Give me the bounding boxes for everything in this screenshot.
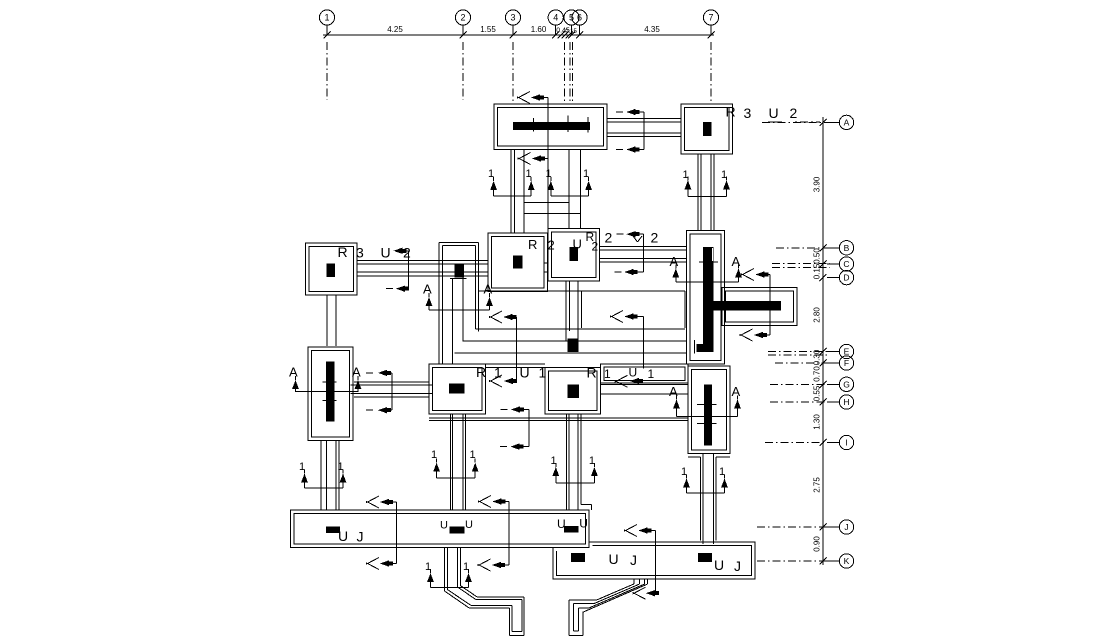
stair leg left <box>444 548 446 592</box>
stair left edge A <box>460 586 477 597</box>
row tick D <box>820 274 827 281</box>
section arrow RL-RC lower <box>500 446 507 448</box>
row tick I <box>820 439 827 446</box>
shear wall BR vertical <box>703 247 714 348</box>
beam F1-F2 <box>607 117 681 119</box>
svg-text:R: R <box>476 364 486 380</box>
row C dash-dot <box>772 263 830 265</box>
beam RC-RR lower <box>601 384 689 386</box>
row bubble A <box>839 115 853 129</box>
svg-text:U: U <box>381 245 391 261</box>
section arrow F1-F2 upper <box>616 111 623 113</box>
row A dash-dot <box>762 121 830 123</box>
grid tick 1 <box>324 32 331 39</box>
svg-text:U: U <box>629 366 638 380</box>
grid line 1 dash-dot <box>326 42 328 100</box>
svg-text:U: U <box>440 520 448 532</box>
section 2-2 bottom arrow <box>615 271 622 273</box>
strip footing J left <box>291 510 589 547</box>
svg-text:7: 7 <box>708 13 713 23</box>
grid bubble 5 <box>564 10 579 25</box>
stair right edge D <box>583 584 648 612</box>
svg-text:U: U <box>579 517 588 531</box>
column in R3 <box>326 263 335 277</box>
beam RC leg <box>565 414 567 511</box>
svg-text:C: C <box>843 259 849 269</box>
svg-text:2.75: 2.75 <box>813 477 822 493</box>
column in RL <box>449 383 464 393</box>
svg-text:B: B <box>844 243 850 253</box>
svg-text:U: U <box>573 237 582 252</box>
notch in BR wall <box>712 248 713 261</box>
svg-text:2: 2 <box>592 240 599 254</box>
row I dash-dot <box>765 442 830 444</box>
svg-text:2: 2 <box>651 230 659 246</box>
beam LT-RL <box>354 381 429 383</box>
section line RL <box>391 373 393 410</box>
section line room2 <box>643 317 645 369</box>
section arrow top F1 upper <box>517 92 530 99</box>
svg-text:U: U <box>338 528 348 544</box>
footing R2 <box>488 233 547 292</box>
grid tick 7 <box>708 32 715 39</box>
svg-text:E: E <box>844 347 850 357</box>
svg-text:G: G <box>843 379 850 389</box>
svg-text:U: U <box>714 557 724 573</box>
stair left bottom <box>512 630 522 632</box>
svg-text:2: 2 <box>790 105 798 121</box>
row bubble E <box>839 344 853 358</box>
svg-text:4: 4 <box>553 13 558 23</box>
svg-text:0.55: 0.55 <box>813 385 822 401</box>
beam LT leg <box>320 440 322 510</box>
footing U2 <box>548 229 600 281</box>
section arrow R3 lower <box>386 288 393 290</box>
footing BR (big right) <box>687 231 725 364</box>
svg-text:1: 1 <box>324 13 329 23</box>
room top line <box>479 290 685 292</box>
grid line 6 dash-dot <box>572 42 574 104</box>
beam RR leg <box>700 457 702 541</box>
svg-text:1.30: 1.30 <box>813 414 822 430</box>
beam label box outer <box>601 364 689 383</box>
svg-text:4.25: 4.25 <box>387 25 403 34</box>
svg-text:R: R <box>587 365 597 381</box>
strip footing J right inner <box>557 546 752 576</box>
corridor top inner <box>443 244 476 246</box>
stair left edge B <box>458 587 476 599</box>
column in strip1 c <box>564 526 578 533</box>
svg-text:6: 6 <box>577 13 582 23</box>
svg-text:F: F <box>844 358 849 368</box>
column in RC <box>568 384 579 398</box>
beam RL leg upper <box>449 414 451 510</box>
dash-dot to row A <box>795 121 820 123</box>
grid tick 2 <box>460 32 467 39</box>
grid tick 4 <box>552 32 559 39</box>
beam RL-RC bottom <box>429 417 688 419</box>
right dimension line <box>822 117 824 565</box>
section 2-2 top arrow <box>617 233 624 235</box>
footing RC (R1 center) <box>545 367 601 414</box>
grid dimension line (top) <box>323 34 714 36</box>
row B dash-dot <box>776 247 830 249</box>
main beam line 2 <box>463 340 686 342</box>
tick in F1 c <box>587 117 589 133</box>
svg-text:U: U <box>609 551 619 567</box>
row bubble J <box>839 520 853 534</box>
column in strip1 b <box>450 527 465 534</box>
svg-text:0.90: 0.90 <box>813 536 822 552</box>
section 2-2 down open <box>633 236 638 242</box>
row G dash-dot <box>770 383 830 385</box>
section line R3 <box>408 251 410 289</box>
corridor wall left <box>451 279 453 365</box>
stair right edge B <box>595 584 640 603</box>
svg-text:0.50: 0.50 <box>813 248 822 264</box>
row bubble I <box>839 435 853 449</box>
corridor top outer <box>439 242 478 244</box>
section arrow room1 <box>489 311 502 318</box>
grid line 7 dash-dot <box>710 42 712 102</box>
wall bar in F1 <box>513 122 590 130</box>
section arrow strip1 upper <box>366 496 379 503</box>
extra ticks at grid 4-6 <box>558 32 565 39</box>
section arrow F1-F2 lower <box>616 149 623 151</box>
row bubble F <box>839 356 853 370</box>
svg-text:U: U <box>465 519 473 531</box>
section arrow strip1 lower <box>366 558 379 565</box>
room2 right edge <box>684 291 686 328</box>
row F dash-dot <box>768 354 830 356</box>
svg-text:A: A <box>732 254 741 269</box>
tick BR top <box>699 261 718 263</box>
svg-text:3: 3 <box>510 13 515 23</box>
column in corridor <box>454 263 464 277</box>
section arrow room2 <box>610 311 623 318</box>
svg-text:J: J <box>630 552 637 568</box>
section line BR <box>769 275 771 336</box>
svg-text:2: 2 <box>460 13 465 23</box>
connectors R2-U2 <box>544 262 548 264</box>
row tick J <box>820 524 827 531</box>
grid bubble 2 <box>455 10 470 25</box>
tick LT a <box>323 381 337 383</box>
svg-text:3: 3 <box>744 105 752 121</box>
grid bubble 3 <box>505 10 520 25</box>
wall bar in LT <box>326 361 334 421</box>
column in strip2 b <box>698 553 712 562</box>
svg-text:R: R <box>338 244 348 260</box>
tick RR a <box>697 403 716 405</box>
row J dash-dot <box>757 526 830 528</box>
section arrow BR lower <box>740 329 753 336</box>
pad right outline <box>722 288 797 326</box>
svg-text:U: U <box>557 517 566 531</box>
row tick C <box>820 261 827 268</box>
grid tick 5 <box>568 32 575 39</box>
row tick B <box>820 244 827 251</box>
section line RL-RC <box>528 410 530 447</box>
shear wall BR horizontal <box>714 301 781 311</box>
stair left edge D <box>445 591 470 608</box>
row F2 dash-dot <box>775 362 830 364</box>
grid tick 6 <box>576 32 583 39</box>
svg-text:I: I <box>845 438 847 448</box>
column on main beam <box>568 339 579 353</box>
svg-text:J: J <box>357 529 364 545</box>
stair right edge C <box>589 584 644 608</box>
section arrow R3 label <box>394 248 403 254</box>
corridor wall right <box>462 277 464 341</box>
column in F2 <box>703 122 712 136</box>
wall bar in RR <box>704 384 712 445</box>
section line strip1 mid <box>508 502 510 566</box>
tick LT b <box>323 399 337 401</box>
beam U2-BR <box>600 245 687 247</box>
tick BR bottom <box>694 340 696 354</box>
grid line 5 dash-dot <box>564 42 566 104</box>
grid line 5b dash-dot <box>569 42 571 104</box>
svg-text:A: A <box>352 365 361 380</box>
svg-text:A: A <box>423 282 432 297</box>
section line F1-F2 <box>643 112 645 150</box>
svg-text:1.60: 1.60 <box>531 25 547 34</box>
section arrow RL-RC upper <box>501 409 508 411</box>
grid bubble 1 <box>319 10 334 25</box>
section arrow BR upper <box>741 269 754 276</box>
column BR bottom <box>696 344 713 352</box>
beam RL-RC top <box>429 363 545 365</box>
svg-text:A: A <box>484 282 493 297</box>
svg-text:J: J <box>844 522 848 532</box>
svg-text:U: U <box>769 105 779 121</box>
svg-text:A: A <box>844 117 850 127</box>
section arrow room1 lower <box>489 375 502 382</box>
grid bubble 7 <box>703 10 718 25</box>
beam R3 leg <box>326 295 328 346</box>
row H dash-dot <box>770 401 830 403</box>
svg-text:2: 2 <box>605 230 613 246</box>
footing R3 (left) <box>305 243 357 295</box>
svg-text:3.90: 3.90 <box>813 176 822 192</box>
svg-text:H: H <box>843 397 849 407</box>
row D dash-dot <box>772 266 830 268</box>
section arrow strip1 mid upper <box>478 496 491 503</box>
svg-text:J: J <box>734 558 741 574</box>
row bubble G <box>839 377 853 391</box>
beam R3-R2 <box>357 260 488 262</box>
row tick A <box>820 119 827 126</box>
row bubble C <box>839 257 853 271</box>
svg-text:K: K <box>844 556 850 566</box>
row bubble H <box>839 395 853 409</box>
svg-text:D: D <box>843 273 849 283</box>
section arrow label box <box>615 375 628 382</box>
column in strip2 a <box>571 553 585 562</box>
svg-text:R: R <box>726 104 736 120</box>
corridor left lines <box>438 243 440 365</box>
section arrow top F1 lower <box>518 153 531 160</box>
row K dash-dot <box>757 560 830 562</box>
row tick E <box>820 348 827 355</box>
row tick G <box>820 381 827 388</box>
svg-text:1: 1 <box>604 367 611 381</box>
section line strip2 <box>655 531 657 594</box>
U2 leg lines <box>565 281 567 341</box>
section line strip1 <box>396 502 398 564</box>
section line 2-2 <box>642 234 644 272</box>
stair right edge A <box>597 584 634 600</box>
beam label box inner <box>604 367 685 380</box>
section arrow strip1 mid lower <box>478 559 491 566</box>
section line room1 <box>516 317 518 381</box>
section arrow strip2 lower <box>633 587 646 594</box>
underline U <box>768 121 782 123</box>
section arrow RL upper <box>366 372 373 374</box>
tick corridor <box>450 278 466 280</box>
grid tick 3 <box>510 32 517 39</box>
svg-text:0.15: 0.15 <box>813 263 822 279</box>
tick in F1 a <box>532 118 534 132</box>
svg-text:R: R <box>528 237 537 252</box>
svg-text:0.70: 0.70 <box>813 366 822 382</box>
svg-text:1.55: 1.55 <box>480 25 496 34</box>
corridor right lines <box>475 245 477 329</box>
column in U2 <box>570 247 579 261</box>
stair stub right <box>633 579 635 584</box>
row E dash-dot <box>768 350 830 352</box>
svg-text:2.80: 2.80 <box>813 307 822 323</box>
footing F2 (top-right) <box>681 104 733 154</box>
svg-text:3: 3 <box>356 245 364 261</box>
footing RL (R1 left) <box>429 364 486 414</box>
grid line 2 dash-dot <box>462 42 464 100</box>
grid line 3 dash-dot <box>512 42 514 102</box>
stair right bottom <box>573 630 578 632</box>
column in R2 <box>513 256 522 269</box>
cut A-A at LT tail <box>296 391 359 393</box>
tick RR b <box>697 423 716 425</box>
row bubble B <box>839 241 853 255</box>
grid bubble 6 <box>572 10 587 25</box>
row bubble K <box>839 554 853 568</box>
footing LT (left tall) <box>308 347 353 440</box>
svg-text:4.35: 4.35 <box>644 25 660 34</box>
tick in F1 b <box>567 116 569 133</box>
section arrow strip2 upper <box>624 525 637 532</box>
beam bridge <box>524 201 569 203</box>
footing RR (right tall) <box>688 366 730 454</box>
svg-text:A: A <box>670 254 679 269</box>
svg-text:A: A <box>732 384 741 399</box>
row bubble D <box>839 270 853 284</box>
section line top F1 <box>547 98 549 237</box>
section arrow RL lower <box>366 409 373 411</box>
beam F1 right leg <box>568 150 570 229</box>
stair left edge C <box>447 590 471 606</box>
main beam line 3 <box>455 352 687 354</box>
svg-text:A: A <box>289 365 298 380</box>
grid bubble 4 <box>548 10 563 25</box>
footing F1 (top-center) <box>494 104 607 150</box>
row tick K <box>820 558 827 565</box>
beam F1 left leg <box>510 150 512 234</box>
beam F2 legs <box>697 154 699 231</box>
strip footing J right outline <box>553 542 755 579</box>
svg-text:1: 1 <box>648 367 655 381</box>
column in strip1 a <box>326 527 340 533</box>
main beam line 1 <box>476 328 685 330</box>
row tick H <box>820 399 827 406</box>
row tick F <box>820 360 827 367</box>
